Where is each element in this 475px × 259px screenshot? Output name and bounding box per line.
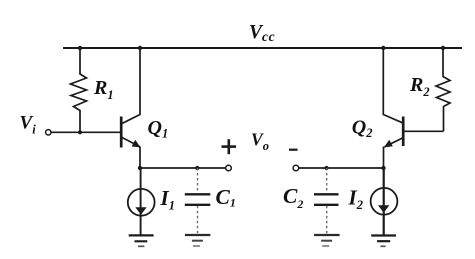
node rail-Q1-collector junction [138, 46, 142, 50]
wire Vcc rail [63, 47, 462, 49]
svg-text:Vi: Vi [20, 113, 37, 137]
svg-text:I2: I2 [348, 186, 363, 213]
svg-text:Vcc: Vcc [249, 22, 275, 44]
svg-text:R2: R2 [409, 74, 430, 99]
wire minus-terminal to Q2-emitter node [299, 167, 384, 169]
node Q1-emitter junction [138, 166, 142, 170]
node C1 tap [195, 166, 199, 170]
current source I1 [128, 168, 155, 235]
capacitor C1 [185, 168, 211, 235]
node rail-R2 junction [441, 46, 445, 50]
wire R2-bottom to Q2-base [403, 130, 443, 132]
svg-text:Q2: Q2 [352, 117, 373, 141]
label + (Vo plus) [222, 139, 237, 154]
ground C1 [185, 235, 211, 246]
svg-text:R1: R1 [93, 77, 114, 102]
svg-text:Q1: Q1 [148, 117, 169, 141]
resistor R1 [71, 48, 87, 132]
transistor Q1 [121, 48, 140, 168]
node R1-base junction [78, 130, 82, 134]
terminal Vo+ [226, 165, 232, 171]
label - (Vo minus) [289, 149, 298, 151]
node rail-Q2-collector junction [381, 46, 385, 50]
resistor R2 [436, 48, 450, 131]
svg-text:C1: C1 [216, 185, 236, 210]
svg-text:Vo: Vo [251, 130, 269, 154]
node rail-R1 junction [78, 46, 82, 50]
terminal Vi input [46, 130, 51, 135]
terminal Vo- [293, 165, 299, 171]
current source I2 [371, 168, 398, 236]
wire Vi-to-Q1-base [51, 131, 120, 133]
capacitor C2 [314, 168, 339, 235]
ground C2 [314, 235, 340, 246]
node C2 tap [324, 166, 328, 170]
ground I2 [371, 236, 396, 247]
ground I1 [129, 235, 154, 246]
wire emitter-node to + terminal [140, 167, 226, 169]
svg-text:I1: I1 [160, 186, 175, 213]
node Q2-emitter junction [381, 166, 385, 170]
svg-text:C2: C2 [283, 184, 303, 211]
transistor Q2 [383, 48, 403, 168]
